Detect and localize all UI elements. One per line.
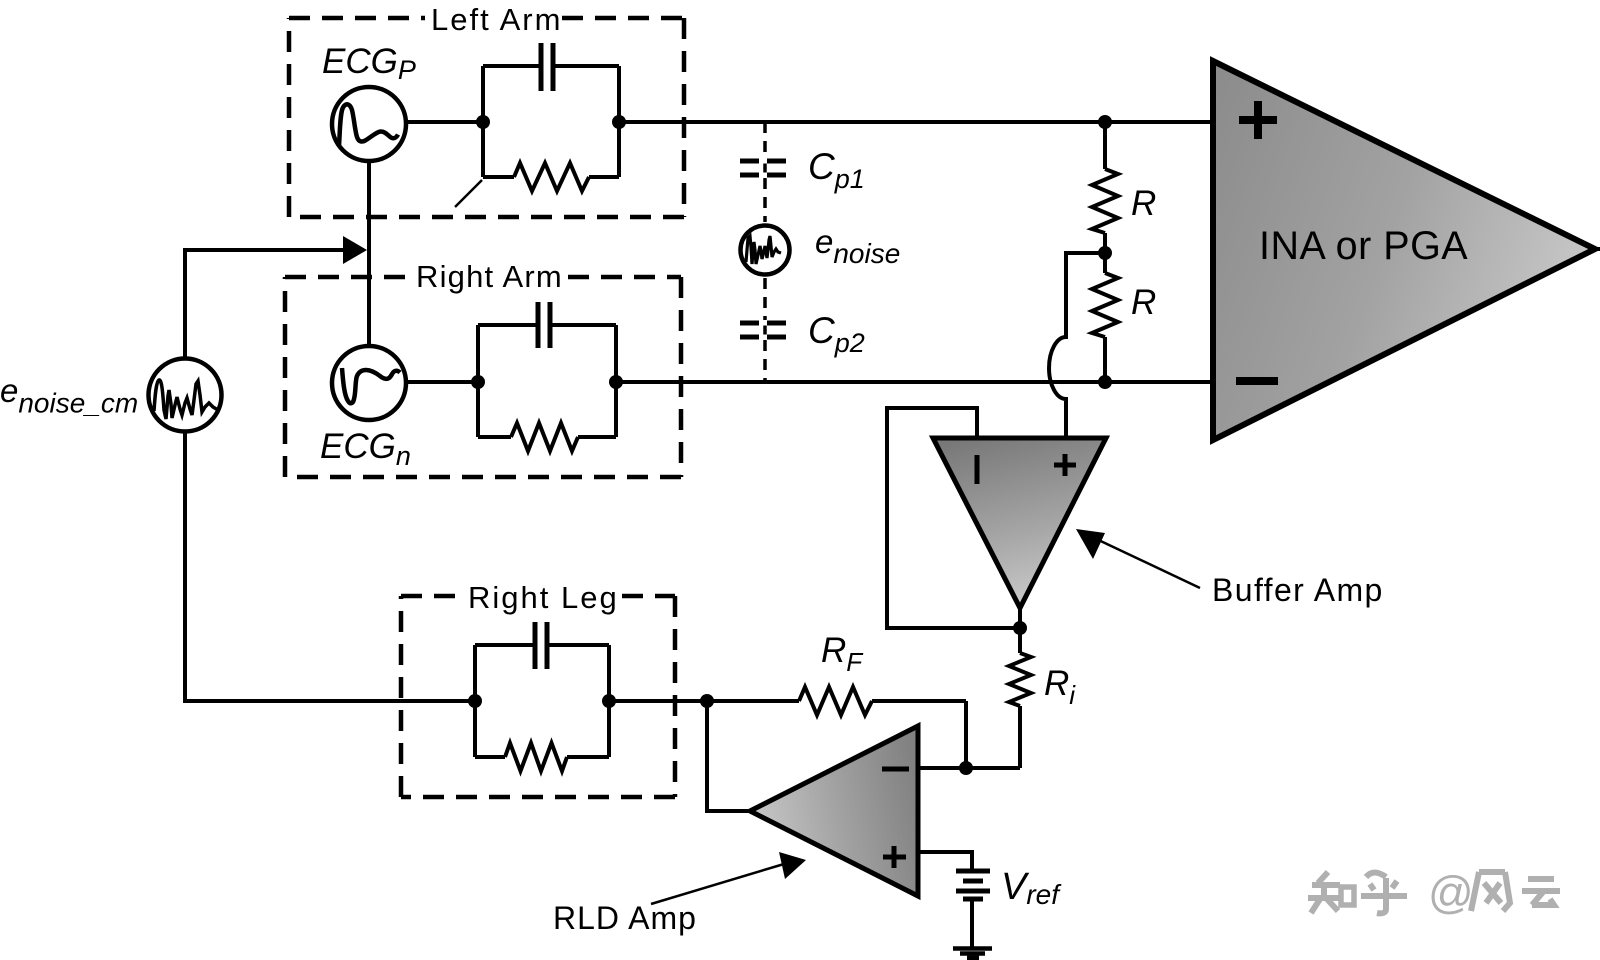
wire e_noise_cm bottom to right leg — [185, 433, 475, 701]
svg-text:RLD Amp: RLD Amp — [553, 900, 697, 936]
left-arm electrode RC frame wires — [483, 66, 619, 177]
svg-text:RF: RF — [821, 631, 864, 677]
capacitor right-leg electrode — [535, 622, 547, 669]
wire buffer feedback loop — [887, 408, 1020, 628]
dashed box Right Arm — [285, 277, 681, 477]
svg-text:Ri: Ri — [1044, 664, 1076, 710]
RLD plus pin mark — [883, 846, 906, 868]
svg-text:Right Arm: Right Arm — [416, 259, 563, 294]
arrowhead into common-mode node — [343, 236, 367, 264]
resistor left-arm electrode — [514, 163, 589, 191]
svg-text:Left Arm: Left Arm — [431, 2, 562, 37]
wire ECG_n output — [406, 380, 478, 384]
node RL2 — [602, 694, 616, 708]
wire right-leg to RF and RLD — [609, 699, 966, 703]
INA plus pin mark — [1239, 101, 1277, 139]
ground — [953, 949, 992, 958]
annotation arrow Buffer Amp — [1090, 536, 1200, 588]
node RL3 — [700, 694, 714, 708]
wire Ri bottom to RLD minus input — [918, 766, 1020, 770]
node B1 on bottom rail — [1098, 375, 1112, 389]
node divider mid — [1103, 233, 1107, 273]
wire ECG_P to ECG_n vertical — [367, 161, 371, 346]
capacitor Cp2 (dashed plates) — [740, 323, 786, 337]
capacitor Cp1 (dashed plates) — [740, 161, 786, 175]
capacitor left-arm electrode — [541, 43, 553, 91]
svg-text:Cp2: Cp2 — [808, 310, 865, 358]
amplifier INA or PGA — [1213, 61, 1595, 440]
node RA1 — [471, 375, 485, 389]
source e_noise_cm — [149, 359, 222, 432]
wire net V+ top rail — [619, 120, 1213, 124]
wire net V- bottom rail — [616, 380, 1213, 384]
svg-text:ECGn: ECGn — [320, 427, 411, 471]
node LA1 — [476, 115, 490, 129]
resistor R upper — [1103, 122, 1107, 169]
node RL1 — [468, 694, 482, 708]
dashed box Right Leg — [401, 596, 675, 797]
wire RF output leg down to node — [964, 701, 968, 768]
RLD minus pin mark — [882, 767, 909, 772]
op-amp RLD Amp — [750, 726, 918, 896]
wire divider tap to buffer with crossover hop — [1049, 253, 1105, 438]
wire RLD plus input to Vref — [918, 852, 972, 871]
op-amp Buffer Amp — [933, 438, 1106, 608]
svg-text:R: R — [1131, 184, 1156, 223]
annotation arrow RLD Amp — [651, 864, 784, 904]
node RLD inverting input — [959, 761, 973, 775]
svg-text:INA or PGA: INA or PGA — [1259, 224, 1468, 268]
resistor right-leg electrode — [505, 743, 567, 771]
wire ECG_P output — [406, 120, 483, 124]
node RA2 — [609, 375, 623, 389]
wire battery to ground — [970, 899, 974, 949]
wire RLD output loop — [707, 701, 750, 811]
source ECG_P — [332, 87, 406, 161]
svg-text:enoise: enoise — [815, 223, 900, 269]
wire e_noise_cm top with injection arrow — [185, 250, 348, 357]
right-arm electrode RC frame wires — [478, 325, 616, 437]
node LA2 — [612, 115, 626, 129]
svg-text:Buffer Amp: Buffer Amp — [1212, 572, 1384, 608]
svg-text:@: @ — [1428, 867, 1474, 918]
source ECG_n — [332, 346, 406, 420]
dashed box Left Arm — [289, 18, 684, 217]
svg-text:enoise_cm: enoise_cm — [0, 372, 138, 419]
dashed ticks between Cp plates — [763, 164, 767, 335]
resistor R lower — [1092, 273, 1118, 337]
svg-text:Cp1: Cp1 — [808, 146, 865, 194]
source e_noise — [741, 226, 790, 275]
buffer minus pin mark — [975, 455, 980, 484]
svg-text:Right Leg: Right Leg — [468, 580, 619, 615]
watermark — [1308, 872, 1560, 913]
INA minus pin mark — [1236, 377, 1278, 385]
capacitor right-arm electrode — [538, 302, 550, 348]
svg-text:Vref: Vref — [1001, 866, 1062, 910]
svg-text:R: R — [1131, 283, 1156, 322]
node buffer output — [1013, 621, 1027, 635]
battery Vref — [956, 871, 990, 899]
resistor right-arm electrode — [511, 423, 578, 451]
resistor Ri — [1018, 628, 1022, 653]
resistor RF — [799, 687, 872, 715]
wire INA output stub — [1595, 247, 1600, 251]
pointer line on left-arm resistor — [455, 180, 482, 207]
node T1 on top rail — [1098, 115, 1112, 129]
right-leg electrode RC frame wires — [475, 645, 609, 757]
buffer plus pin mark — [1054, 454, 1076, 476]
svg-text:ECGP: ECGP — [322, 42, 416, 85]
dashed parasitic vertical net — [763, 122, 767, 382]
